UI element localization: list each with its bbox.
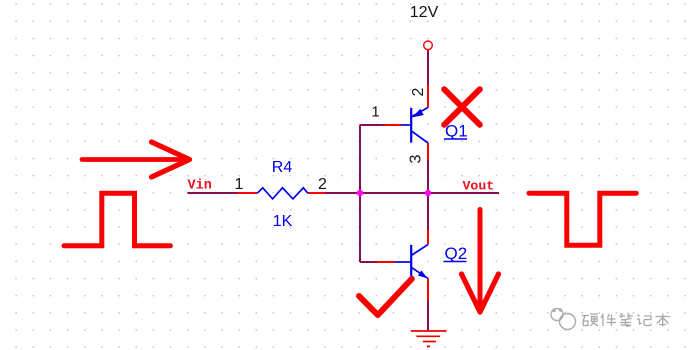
svg-text:3: 3 xyxy=(408,155,425,164)
svg-text:2: 2 xyxy=(318,176,327,193)
svg-text:Q2: Q2 xyxy=(445,244,468,263)
svg-text:12V: 12V xyxy=(410,4,439,21)
svg-text:1K: 1K xyxy=(273,213,293,230)
svg-text:1: 1 xyxy=(235,176,244,193)
svg-text:Vout: Vout xyxy=(463,179,495,194)
svg-text:1: 1 xyxy=(371,104,379,121)
svg-text:R4: R4 xyxy=(272,159,293,176)
svg-text:2: 2 xyxy=(410,88,427,97)
svg-text:Vin: Vin xyxy=(188,179,212,194)
